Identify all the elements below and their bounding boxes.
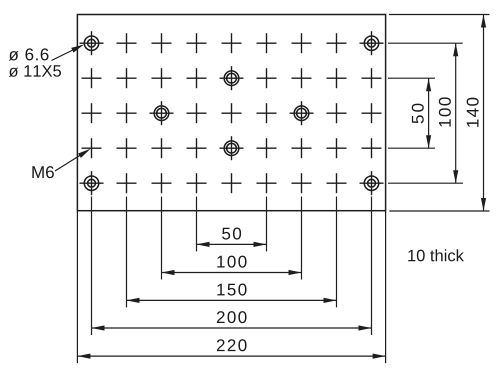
- hole cross col3 row1: [152, 33, 172, 53]
- extension line 140 top: [389, 14, 490, 16]
- dimension 200 extension line right: [371, 197, 373, 336]
- hole cross col7 row2: [292, 68, 312, 88]
- hole cross col6 row1: [257, 33, 277, 53]
- counterbored hole 6.6/11 col1 row1: [84, 36, 98, 50]
- dimension text 220: [217, 339, 247, 351]
- dimension line 100 vertical: [455, 43, 457, 183]
- dimension line 50 vertical: [428, 78, 430, 148]
- dimension 100 extension line left: [161, 197, 163, 280]
- dimension 150 extension line left: [126, 197, 128, 308]
- leader line for counterbore note: [52, 46, 83, 61]
- extension line 50 top: [388, 77, 435, 79]
- hole cross col1 row2: [82, 68, 102, 88]
- center hole col7 row3: [294, 106, 309, 121]
- dimension line 200: [92, 327, 372, 329]
- hole cross col2 row1: [117, 33, 137, 53]
- extension line 100 bottom: [388, 182, 463, 184]
- dimension 220 extension line left: [76, 211, 78, 363]
- plate outline 220x140: [77, 15, 385, 211]
- extension line 140 bottom: [389, 210, 489, 212]
- center hole col3 row3: [154, 106, 169, 121]
- hole cross col4 row5: [187, 173, 207, 193]
- hole cross col1 row1: [80, 31, 104, 55]
- counterbored hole 6.6/11 col1 row5: [84, 176, 98, 190]
- hole cross col6 row3: [257, 103, 277, 123]
- hole cross col7 row5: [292, 173, 312, 193]
- dimension text 200: [217, 311, 247, 323]
- hole cross col5 row5: [222, 173, 242, 193]
- hole cross col8 row1: [327, 33, 347, 53]
- hole cross col5 row2: [220, 66, 244, 90]
- center hole col5 row4: [224, 141, 239, 156]
- dimension 150 extension line right: [336, 197, 338, 308]
- hole cross col6 row4: [257, 138, 277, 158]
- dimension text 100 (rotated): [439, 97, 451, 126]
- dimension text 100: [217, 256, 246, 268]
- hole cross col8 row5: [327, 173, 347, 193]
- hole cross col4 row2: [187, 68, 207, 88]
- hole cross col9 row5: [360, 171, 384, 195]
- hole cross col6 row2: [257, 68, 277, 88]
- hole cross col9 row1: [360, 31, 384, 55]
- dimension 220 extension line right: [385, 211, 387, 363]
- center hole col5 row2: [224, 71, 239, 86]
- counterbored hole 6.6/11 col9 row1: [364, 36, 378, 50]
- dimension 200 extension line left: [91, 197, 93, 336]
- hole cross col1 row5: [80, 171, 104, 195]
- hole cross col3 row2: [152, 68, 172, 88]
- note 10 thick: [408, 249, 464, 261]
- dimension line 150: [127, 299, 337, 301]
- hole cross col3 row5: [152, 173, 172, 193]
- hole cross col4 row3: [187, 103, 207, 123]
- hole cross col5 row3: [222, 103, 242, 123]
- hole cross col4 row1: [187, 33, 207, 53]
- dimension 50 extension line right: [266, 197, 268, 252]
- hole cross col7 row3: [290, 101, 314, 125]
- hole cross col1 row3: [82, 103, 102, 123]
- dimension line 100: [162, 272, 302, 274]
- dimension 100 extension line right: [301, 197, 303, 280]
- hole cross col8 row3: [327, 103, 347, 123]
- hole cross col8 row2: [327, 68, 347, 88]
- dimension line 140 vertical: [483, 15, 485, 212]
- label diameter 11X5: [9, 65, 61, 77]
- hole cross col6 row5: [257, 173, 277, 193]
- hole cross col2 row3: [117, 103, 137, 123]
- hole cross col4 row4: [187, 138, 207, 158]
- dimension line 50: [197, 243, 267, 245]
- hole cross col2 row5: [117, 173, 137, 193]
- dimension text 140 (rotated): [467, 98, 479, 127]
- hole cross col5 row1: [222, 33, 242, 53]
- dimension text 150: [217, 284, 246, 296]
- hole cross col2 row4: [117, 138, 137, 158]
- hole cross col5 row4: [220, 136, 244, 160]
- extension line 100 top: [388, 42, 463, 44]
- hole cross col7 row1: [292, 33, 312, 53]
- hole cross col3 row3: [150, 101, 174, 125]
- hole cross col2 row2: [117, 68, 137, 88]
- hole cross col8 row4: [327, 138, 347, 158]
- dimension line 220: [77, 355, 385, 357]
- hole cross col9 row4: [362, 138, 382, 158]
- leader line for M6 note: [55, 150, 89, 171]
- label diameter 6.6: [9, 48, 49, 60]
- hole cross col9 row3: [362, 103, 382, 123]
- hole cross col9 row2: [362, 68, 382, 88]
- dimension text 50 (rotated): [412, 104, 424, 124]
- hole cross col3 row4: [152, 138, 172, 158]
- extension line 50 bottom: [388, 147, 435, 149]
- dimension text 50: [222, 228, 241, 240]
- counterbored hole 6.6/11 col9 row5: [364, 176, 378, 190]
- label M6: [32, 166, 53, 178]
- dimension 50 extension line left: [196, 197, 198, 252]
- hole cross col1 row4: [82, 138, 102, 158]
- hole cross col7 row4: [292, 138, 312, 158]
